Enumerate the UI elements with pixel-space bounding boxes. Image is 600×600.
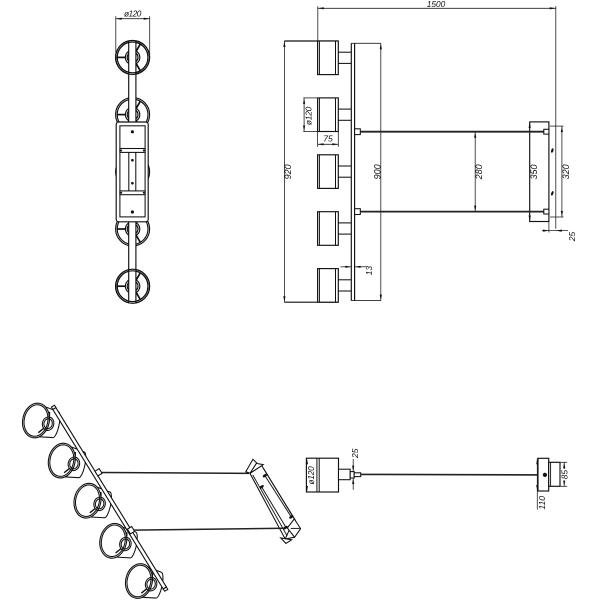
svg-text:13: 13: [364, 266, 374, 276]
svg-text:320: 320: [561, 164, 571, 179]
svg-text:900: 900: [372, 164, 382, 179]
svg-text:1500: 1500: [427, 0, 446, 9]
svg-text:350: 350: [529, 164, 539, 179]
svg-text:110: 110: [537, 496, 547, 510]
svg-text:85: 85: [559, 470, 569, 480]
svg-text:25: 25: [350, 448, 360, 459]
svg-text:75: 75: [323, 133, 333, 143]
svg-text:25: 25: [567, 232, 577, 243]
svg-text:ø120: ø120: [307, 466, 316, 485]
svg-text:920: 920: [283, 164, 293, 179]
svg-text:ø120: ø120: [303, 106, 313, 125]
svg-text:ø120: ø120: [124, 8, 142, 18]
svg-text:280: 280: [474, 164, 484, 180]
